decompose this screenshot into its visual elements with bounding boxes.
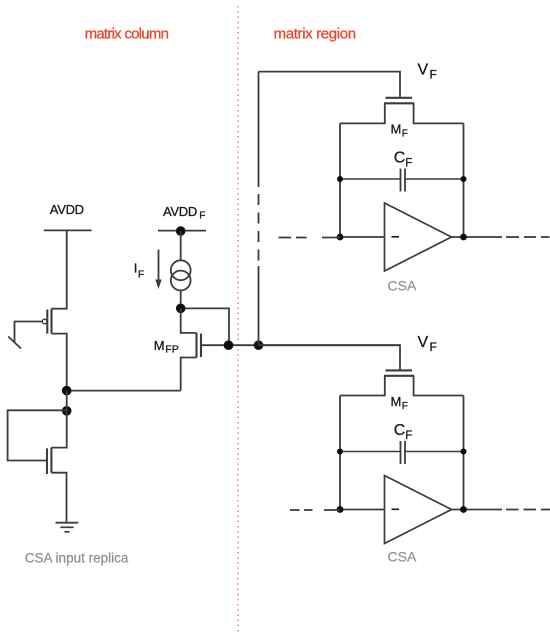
svg-text:I: I <box>134 260 138 275</box>
input junction dot (bottom cell) <box>337 506 344 513</box>
node B junction dot <box>62 406 72 416</box>
wire: M_FP gate row to matrix column <box>201 344 400 346</box>
svg-text:CSA: CSA <box>388 278 417 294</box>
wire: feedback left vertical (top cell) <box>339 123 341 237</box>
wire: output (top cell) <box>452 236 503 238</box>
junction dot C_F left (bottom cell) <box>337 449 343 455</box>
minus sign (top cell) <box>392 236 400 238</box>
svg-text:F: F <box>430 68 437 82</box>
minus sign (bottom cell) <box>392 508 400 510</box>
dashed continuation left (bottom cell) <box>290 509 340 511</box>
wire: PMOS source down to node A <box>52 334 67 391</box>
svg-text:F: F <box>430 340 437 354</box>
transistor M_F (bottom cell) <box>384 370 414 375</box>
clock slash on gate wire <box>8 337 21 349</box>
svg-text:F: F <box>405 158 412 170</box>
matrix column vertical: dashed middle segment <box>258 194 260 267</box>
ground <box>56 523 79 532</box>
wire: current source to node D <box>180 290 182 308</box>
wire: node A to M_FP source <box>67 390 181 392</box>
wire: M_FP source to node A row <box>181 358 197 391</box>
power rail AVDD <box>44 229 92 231</box>
svg-text:matrix region: matrix region <box>274 25 356 42</box>
matrix column vertical: solid upper segment <box>258 72 260 187</box>
svg-text:AVDD: AVDD <box>50 202 84 217</box>
transistor NMOS diode-connected (replica) <box>47 448 51 474</box>
svg-text:M: M <box>391 394 402 409</box>
svg-text:CSA: CSA <box>388 549 417 565</box>
transistor M_F (top cell) <box>384 98 414 104</box>
wire: output (bottom cell) <box>452 509 503 511</box>
wire: AVDD rail to PMOS drain <box>52 230 67 308</box>
wire: M_F left lead (top cell) <box>340 103 385 123</box>
wire: M_F right lead (bottom cell) <box>414 376 464 396</box>
wire: column row to bottom M_F gate <box>259 345 401 369</box>
current source I_F <box>171 260 191 290</box>
junction dot C_F right (bottom cell) <box>461 449 467 455</box>
transistor M_FP <box>197 333 202 358</box>
svg-text:FP: FP <box>165 344 178 356</box>
svg-text:V: V <box>418 62 429 79</box>
svg-text:F: F <box>138 270 144 281</box>
wire: feedback right vertical (bottom cell) <box>463 396 465 510</box>
wire: NMOS source to ground <box>51 473 66 522</box>
dashed continuation left (top cell) <box>279 237 341 239</box>
svg-text:V: V <box>418 334 429 351</box>
wire: feedback right vertical (top cell) <box>463 123 465 237</box>
node D junction dot <box>176 304 186 314</box>
svg-text:F: F <box>199 211 205 222</box>
wire: PMOS gate lead <box>15 322 43 344</box>
capacitor C_F (top cell) <box>340 169 464 192</box>
wire: node D diode loop to gate wire <box>181 308 229 345</box>
svg-text:M: M <box>154 338 165 353</box>
wire: rail to current source <box>180 231 182 260</box>
svg-text:C: C <box>394 150 406 167</box>
wire: input (top cell) <box>340 236 385 238</box>
svg-text:M: M <box>391 122 402 137</box>
matrix column vertical: solid lower segment <box>258 266 260 345</box>
svg-text:C: C <box>394 422 406 439</box>
wire: column top to top M_F gate <box>259 72 401 97</box>
wire: input (bottom cell) <box>340 509 385 511</box>
svg-text:F: F <box>405 430 412 442</box>
dashed continuation right (top cell) <box>506 236 550 238</box>
power rail AVDD_F <box>158 230 206 232</box>
svg-text:matrix column: matrix column <box>85 25 169 42</box>
output junction dot (bottom cell) <box>460 506 467 513</box>
wire: feedback left vertical (bottom cell) <box>339 396 341 510</box>
wire: M_F left lead (bottom cell) <box>340 376 385 396</box>
junction dot C_F left (top cell) <box>337 176 343 182</box>
current arrow I_F <box>158 250 160 282</box>
node F junction dot <box>254 340 264 350</box>
svg-text:F: F <box>402 129 408 140</box>
wire: NMOS gate loop to node B <box>8 410 67 460</box>
node E junction dot <box>224 340 234 350</box>
junction dot C_F right (top cell) <box>461 176 467 182</box>
op-amp CSA triangle (top cell) <box>385 203 452 271</box>
dashed continuation right (bottom cell) <box>506 509 550 511</box>
capacitor C_F (bottom cell) <box>340 441 464 464</box>
node A junction dot <box>62 386 72 396</box>
input junction dot (top cell) <box>337 234 344 241</box>
output junction dot (top cell) <box>460 234 467 241</box>
node C junction dot on AVDD_F rail <box>176 226 186 236</box>
wire: node D to M_FP drain <box>181 308 197 333</box>
wire: M_F right lead (top cell) <box>414 103 464 123</box>
op-amp CSA triangle (bottom cell) <box>385 476 452 544</box>
region divider (red dotted line) <box>237 6 239 635</box>
svg-text:CSA input replica: CSA input replica <box>25 551 129 566</box>
wire: node A to NMOS drain <box>51 391 66 448</box>
svg-text:F: F <box>402 401 408 412</box>
transistor PMOS cascode (left) <box>42 309 51 334</box>
svg-text:AVDD: AVDD <box>163 204 197 219</box>
